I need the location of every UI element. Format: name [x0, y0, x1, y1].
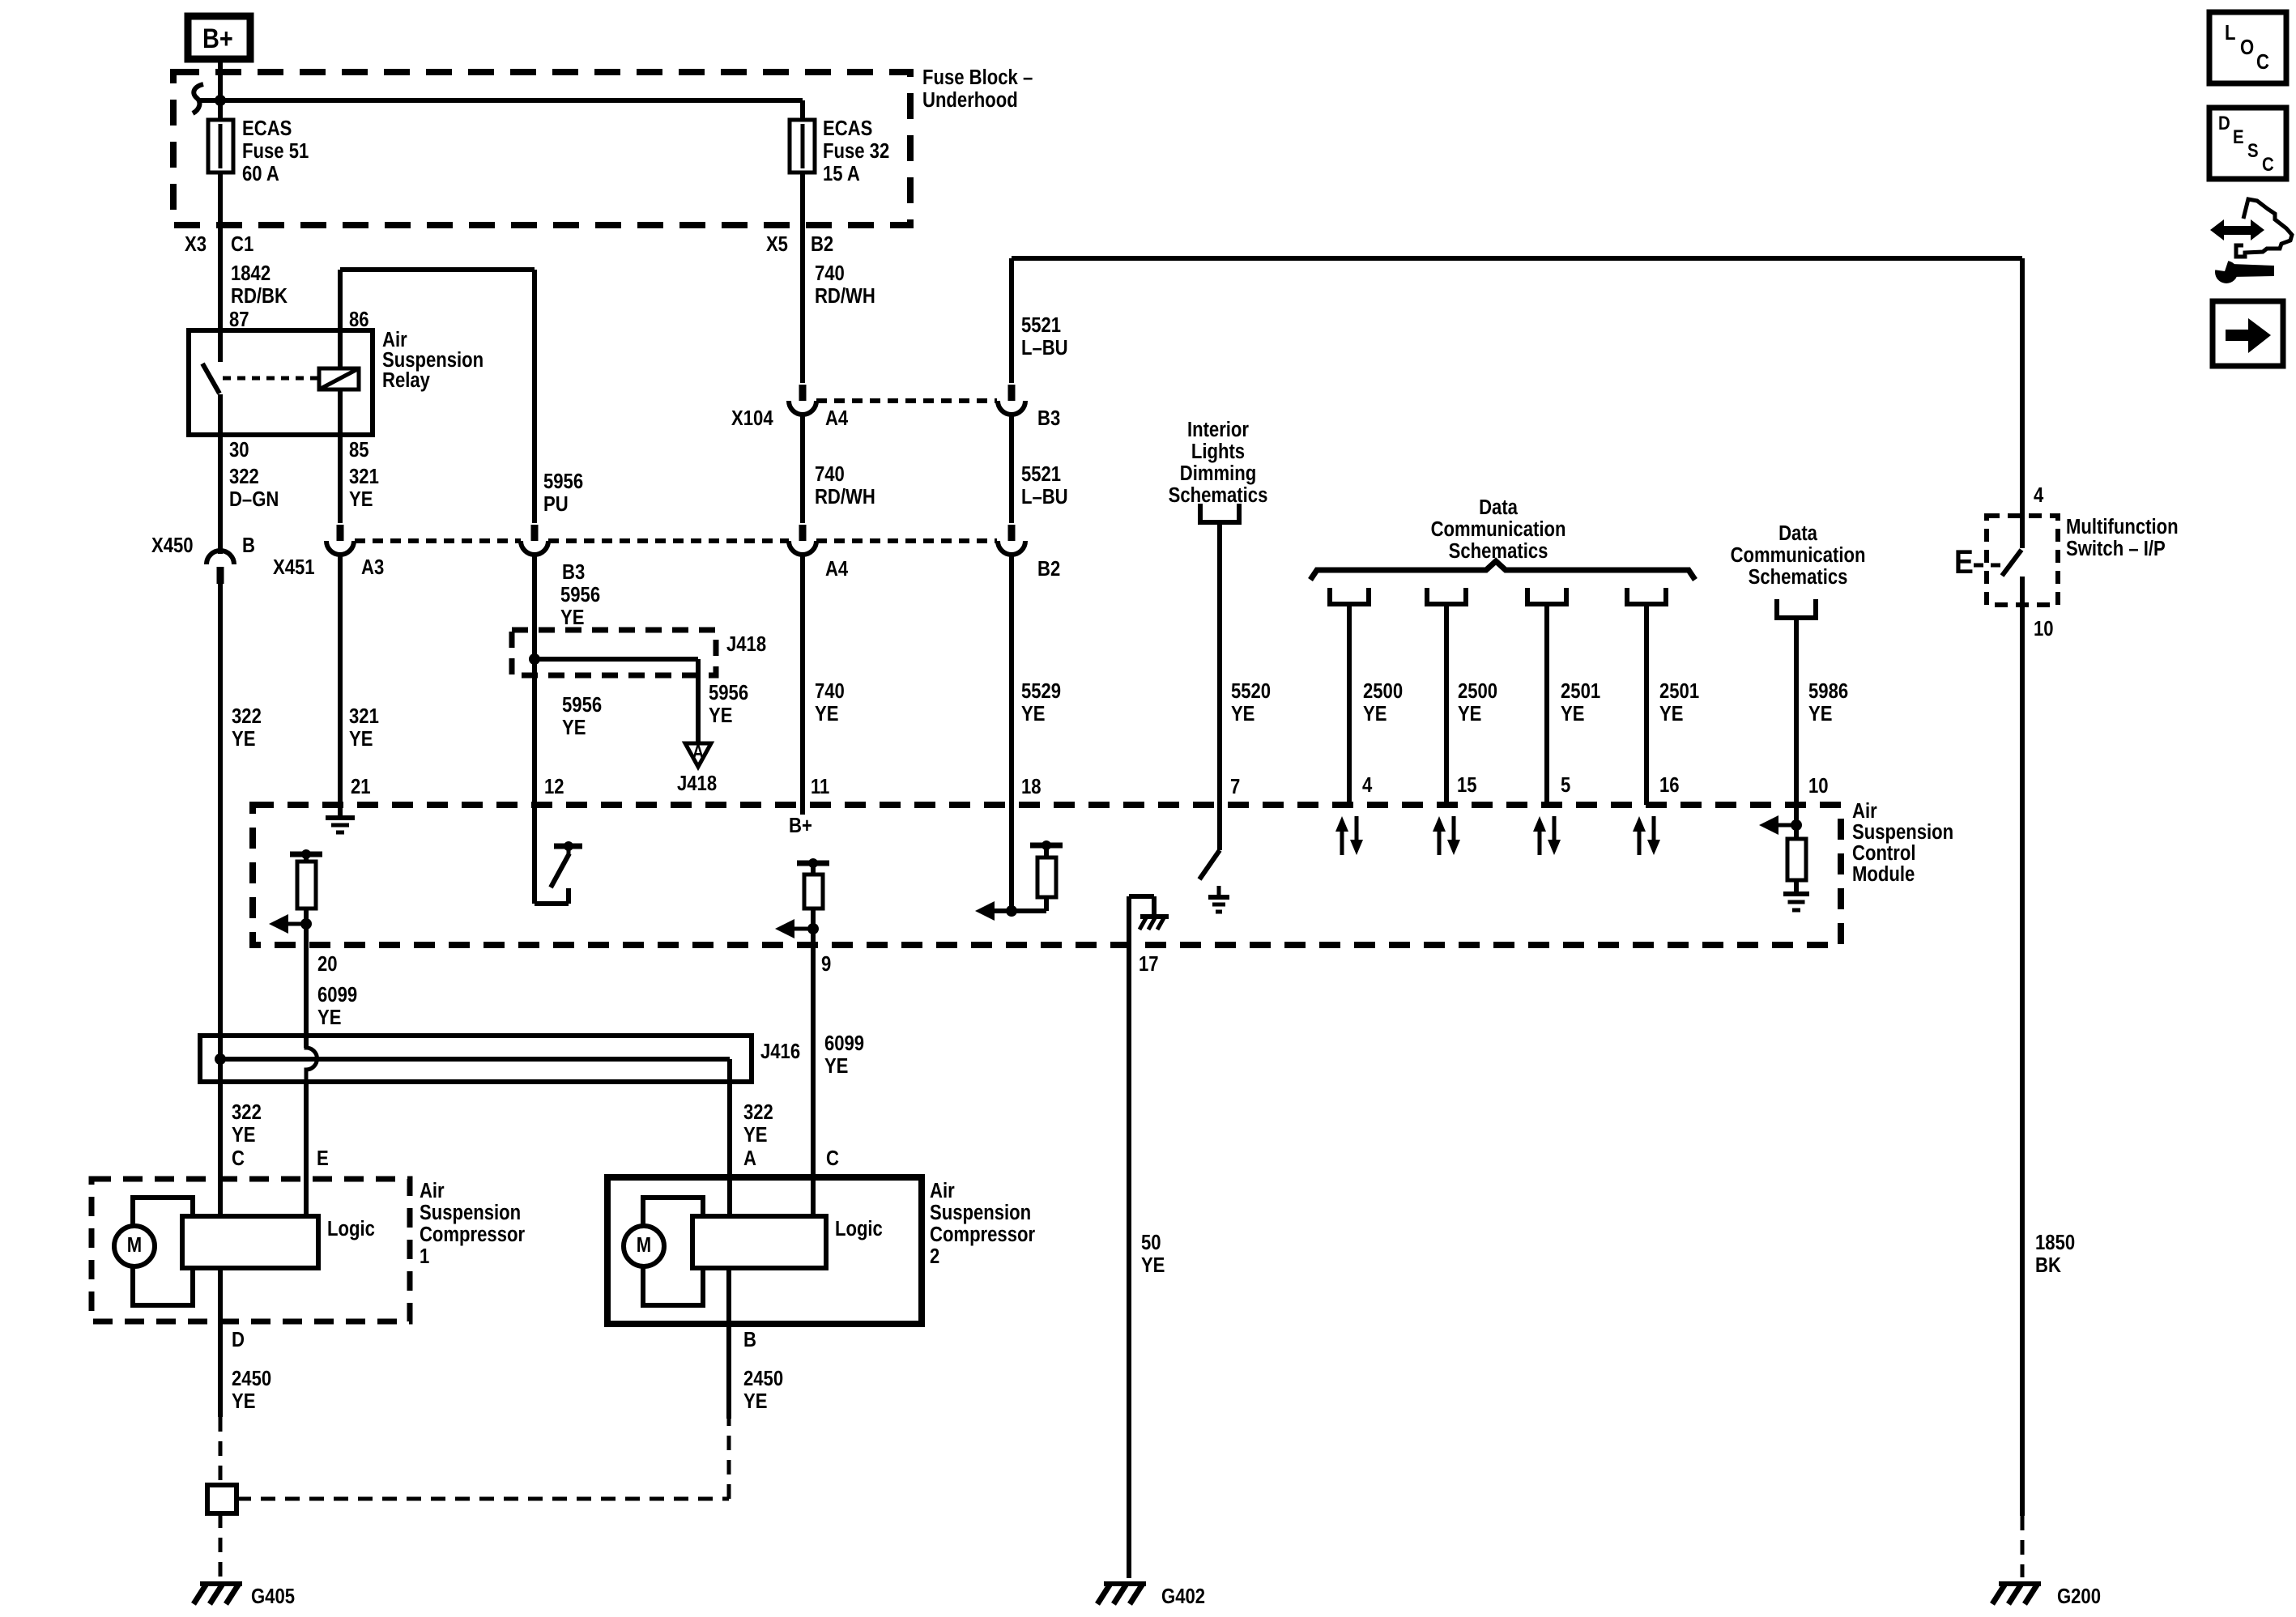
svg-text:YE: YE	[1458, 702, 1481, 726]
svg-text:B: B	[743, 1328, 756, 1351]
svg-text:RD/WH: RD/WH	[815, 485, 875, 509]
svg-text:S: S	[2247, 139, 2259, 161]
svg-text:322: 322	[229, 465, 259, 488]
svg-text:C: C	[232, 1147, 245, 1170]
svg-text:5521: 5521	[1021, 462, 1061, 486]
svg-text:O: O	[2240, 36, 2254, 59]
svg-text:5520: 5520	[1231, 679, 1271, 703]
svg-text:J418: J418	[677, 772, 717, 795]
svg-text:5956: 5956	[562, 693, 602, 717]
svg-text:2501: 2501	[1561, 679, 1600, 703]
svg-text:D: D	[232, 1328, 245, 1351]
svg-text:Relay: Relay	[382, 368, 430, 392]
svg-text:2500: 2500	[1458, 679, 1497, 703]
svg-text:Schematics: Schematics	[1449, 539, 1548, 563]
svg-text:Data: Data	[1778, 521, 1817, 545]
svg-text:YE: YE	[1021, 702, 1045, 726]
svg-text:X104: X104	[731, 406, 773, 430]
svg-text:Lights: Lights	[1191, 440, 1245, 463]
svg-text:J416: J416	[760, 1040, 800, 1063]
svg-text:2501: 2501	[1659, 679, 1699, 703]
svg-text:L–BU: L–BU	[1021, 336, 1068, 360]
svg-text:E: E	[2233, 126, 2244, 147]
svg-text:G402: G402	[1161, 1585, 1205, 1608]
svg-text:Compressor: Compressor	[930, 1223, 1036, 1246]
svg-text:Communication: Communication	[1431, 517, 1566, 541]
svg-text:G200: G200	[2057, 1585, 2101, 1608]
svg-text:Interior: Interior	[1187, 418, 1250, 441]
svg-text:A: A	[743, 1147, 756, 1170]
svg-text:10: 10	[1808, 774, 1829, 798]
svg-text:G405: G405	[251, 1585, 295, 1608]
svg-text:YE: YE	[232, 727, 255, 751]
svg-text:17: 17	[1139, 952, 1159, 976]
svg-text:Air: Air	[930, 1179, 955, 1202]
svg-text:D–GN: D–GN	[229, 487, 279, 511]
svg-text:C: C	[826, 1147, 839, 1170]
svg-text:B2: B2	[811, 232, 833, 256]
svg-text:YE: YE	[815, 702, 838, 726]
svg-text:6099: 6099	[824, 1032, 864, 1055]
svg-text:1842: 1842	[231, 262, 270, 285]
svg-text:Logic: Logic	[835, 1217, 883, 1240]
svg-text:C: C	[2256, 50, 2269, 74]
svg-text:B+: B+	[789, 814, 812, 837]
svg-text:YE: YE	[1363, 702, 1387, 726]
svg-text:L–BU: L–BU	[1021, 485, 1068, 509]
svg-text:1: 1	[420, 1245, 429, 1268]
svg-text:A4: A4	[825, 557, 849, 581]
svg-text:Underhood: Underhood	[922, 88, 1018, 112]
svg-text:C: C	[2262, 153, 2274, 175]
svg-text:Schematics: Schematics	[1169, 483, 1268, 507]
svg-text:15: 15	[1457, 773, 1477, 797]
svg-text:YE: YE	[349, 727, 373, 751]
svg-text:15 A: 15 A	[823, 162, 860, 185]
svg-text:B: B	[242, 534, 255, 557]
svg-text:Data: Data	[1479, 496, 1518, 519]
svg-text:YE: YE	[1808, 702, 1832, 726]
svg-text:4: 4	[1362, 773, 1373, 797]
svg-text:ECAS: ECAS	[823, 117, 872, 140]
svg-text:PU: PU	[543, 492, 569, 516]
svg-text:20: 20	[317, 952, 338, 976]
svg-text:322: 322	[232, 704, 262, 728]
svg-text:Fuse 51: Fuse 51	[242, 139, 309, 163]
svg-text:Logic: Logic	[327, 1217, 375, 1240]
svg-text:740: 740	[815, 679, 845, 703]
svg-text:5521: 5521	[1021, 313, 1061, 337]
svg-text:J418: J418	[726, 632, 766, 656]
svg-text:ECAS: ECAS	[242, 117, 292, 140]
svg-text:Module: Module	[1852, 862, 1915, 886]
svg-text:87: 87	[229, 308, 249, 331]
svg-text:Compressor: Compressor	[420, 1223, 526, 1246]
svg-text:86: 86	[349, 308, 369, 331]
svg-text:Fuse Block –: Fuse Block –	[922, 66, 1033, 89]
svg-text:5: 5	[1561, 773, 1570, 797]
svg-text:M: M	[637, 1233, 651, 1257]
svg-text:321: 321	[349, 704, 379, 728]
svg-text:2: 2	[930, 1245, 939, 1268]
svg-text:5956: 5956	[560, 583, 600, 606]
svg-text:2450: 2450	[743, 1367, 783, 1390]
svg-text:B2: B2	[1037, 557, 1060, 581]
svg-text:YE: YE	[709, 704, 732, 727]
svg-text:12: 12	[544, 775, 564, 798]
svg-text:YE: YE	[560, 606, 584, 629]
svg-text:YE: YE	[743, 1123, 767, 1147]
svg-text:1850: 1850	[2035, 1231, 2075, 1254]
svg-text:A: A	[692, 741, 705, 763]
svg-text:Suspension: Suspension	[1852, 820, 1953, 844]
svg-text:X450: X450	[151, 534, 194, 557]
svg-text:YE: YE	[1231, 702, 1254, 726]
svg-text:BK: BK	[2035, 1253, 2061, 1277]
svg-text:Suspension: Suspension	[420, 1201, 521, 1224]
svg-text:YE: YE	[824, 1054, 848, 1078]
svg-text:4: 4	[2034, 483, 2044, 507]
svg-text:C1: C1	[231, 232, 253, 256]
svg-text:A3: A3	[361, 555, 384, 579]
svg-text:322: 322	[743, 1100, 773, 1124]
svg-text:10: 10	[2034, 617, 2054, 640]
svg-text:5956: 5956	[709, 681, 748, 704]
svg-text:X5: X5	[766, 232, 788, 256]
svg-text:RD/BK: RD/BK	[231, 284, 288, 308]
svg-text:21: 21	[351, 775, 371, 798]
svg-text:M: M	[127, 1233, 142, 1257]
svg-text:YE: YE	[1659, 702, 1683, 726]
svg-text:YE: YE	[232, 1123, 255, 1147]
svg-text:YE: YE	[562, 716, 586, 739]
svg-text:9: 9	[821, 952, 831, 976]
svg-text:YE: YE	[349, 487, 373, 511]
svg-text:A4: A4	[825, 406, 849, 430]
svg-text:740: 740	[815, 262, 845, 285]
svg-text:2450: 2450	[232, 1367, 271, 1390]
svg-text:Multifunction: Multifunction	[2066, 515, 2179, 538]
svg-text:D: D	[2218, 112, 2230, 134]
svg-text:16: 16	[1659, 773, 1680, 797]
svg-text:5986: 5986	[1808, 679, 1848, 703]
svg-text:18: 18	[1021, 775, 1042, 798]
svg-text:YE: YE	[232, 1389, 255, 1413]
svg-text:Dimming: Dimming	[1180, 462, 1256, 485]
svg-text:6099: 6099	[317, 983, 357, 1006]
svg-text:X451: X451	[273, 555, 315, 579]
svg-text:11: 11	[811, 775, 829, 798]
svg-text:Control: Control	[1852, 841, 1915, 865]
svg-text:50: 50	[1141, 1231, 1161, 1254]
svg-text:RD/WH: RD/WH	[815, 284, 875, 308]
svg-text:30: 30	[229, 438, 249, 462]
svg-text:X3: X3	[185, 232, 207, 256]
svg-text:Schematics: Schematics	[1749, 565, 1848, 589]
svg-text:Air: Air	[1852, 799, 1877, 823]
svg-text:85: 85	[349, 438, 369, 462]
svg-text:Suspension: Suspension	[930, 1201, 1031, 1224]
svg-text:Air: Air	[420, 1179, 445, 1202]
svg-text:5956: 5956	[543, 470, 583, 493]
svg-text:60 A: 60 A	[242, 162, 279, 185]
svg-text:2500: 2500	[1363, 679, 1403, 703]
svg-text:322: 322	[232, 1100, 262, 1124]
svg-text:B3: B3	[1037, 406, 1060, 430]
svg-text:740: 740	[815, 462, 845, 486]
svg-text:YE: YE	[743, 1389, 767, 1413]
svg-text:YE: YE	[1141, 1253, 1165, 1277]
svg-text:B3: B3	[562, 560, 585, 584]
svg-text:E: E	[1954, 543, 1974, 581]
svg-text:Fuse 32: Fuse 32	[823, 139, 889, 163]
svg-text:YE: YE	[1561, 702, 1584, 726]
svg-text:L: L	[2225, 21, 2235, 45]
svg-text:B+: B+	[202, 23, 233, 54]
svg-text:5529: 5529	[1021, 679, 1061, 703]
svg-text:E: E	[317, 1147, 329, 1170]
svg-text:Switch – I/P: Switch – I/P	[2066, 537, 2166, 560]
svg-text:7: 7	[1230, 775, 1240, 798]
svg-text:321: 321	[349, 465, 379, 488]
svg-text:YE: YE	[317, 1006, 341, 1029]
svg-text:Communication: Communication	[1731, 543, 1866, 567]
